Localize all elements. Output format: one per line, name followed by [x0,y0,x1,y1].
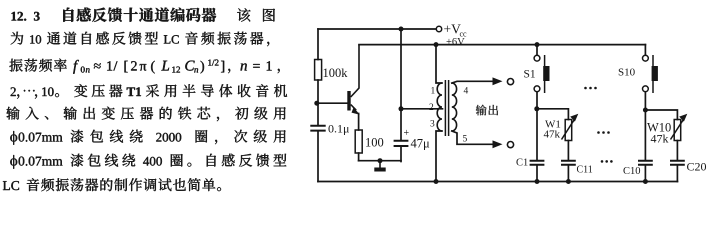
svg-text:C11: C11 [577,165,593,176]
arrow output upper [493,77,503,85]
svg-text:C1: C1 [516,158,528,169]
wire T1 pin1 vertical [436,45,442,83]
wire 0.1u to bottom rail [317,132,319,182]
wire to W10 branch [645,110,677,120]
svg-text:S10: S10 [618,67,636,79]
wire C1 to rail [536,166,538,182]
node S1 top on line B [535,42,540,47]
wire left vertical top [317,29,319,60]
wire emitter resistor to ground line [358,153,360,161]
capacitor C 0.1u [310,122,349,136]
dots between channels middle [597,131,610,134]
dots between channels lower [601,160,613,163]
node C1 rail [535,179,540,184]
wire 47u to ground line [400,147,402,162]
svg-text:+6V: +6V [446,37,465,48]
node ground junction [378,158,383,163]
text line1 [12,8,276,22]
wire W10 to C20 [676,141,678,161]
capacitor C11 [561,161,593,176]
resistor R2 100 [355,130,384,153]
rheostat W1 47k [544,114,579,141]
svg-text:+: + [404,128,410,139]
wire C20 to rail [676,166,678,182]
wire supply line A [318,28,436,30]
svg-text:C20: C20 [687,160,707,174]
wire output upper [452,81,493,83]
wire collector rail line B [359,44,645,46]
wire S1 bottom to node [536,92,538,160]
capacitor C 47u electrolytic [394,128,430,151]
node base junction [314,101,319,106]
wire C11 to rail [567,166,569,182]
wire 100k to base node [317,80,319,125]
arrow output lower [493,140,503,148]
svg-text:S1: S1 [524,69,536,81]
svg-text:3: 3 [430,120,435,130]
svg-text:4: 4 [464,87,469,97]
text line3 [9,59,279,74]
svg-text:100k: 100k [323,66,349,80]
terminal output lower [507,142,513,148]
svg-text:2: 2 [429,103,434,113]
resistor R1 100k [315,60,349,81]
text line4 [11,84,288,99]
capacitor C20 [670,160,707,174]
wire T1 pin3 to bottom rail [436,131,442,182]
dots between channels upper [584,87,597,90]
node 47u top on line A [399,27,404,32]
wire ground line [359,160,401,162]
text line2 [11,32,270,47]
wire emitter [358,114,360,131]
text line8 [3,178,221,191]
wire S10 bottom to node [644,92,646,160]
transformer T1 core [445,80,448,136]
wire to W1 branch [537,109,569,120]
wire output lower [452,131,493,144]
svg-text:1: 1 [431,87,436,97]
node channel1 junction [534,106,539,111]
wire C10 to rail [644,166,646,182]
rheostat W10 47k [647,114,687,146]
switch S10 [618,55,658,93]
terminal +Vcc [436,22,467,49]
svg-text:47k: 47k [651,132,669,146]
node C11 rail [566,179,571,184]
wire bottom rail [318,181,677,183]
node channel10 junction [643,108,648,113]
node C10 rail [643,179,648,184]
text line6 [10,130,285,145]
terminal output upper [507,79,513,85]
svg-text:C10: C10 [623,166,641,177]
ground [374,161,385,170]
transformer T1 primary [437,83,442,131]
label output 输出 [476,105,498,116]
node T1 pin3 rail [434,179,439,184]
switch S1 [524,55,550,93]
svg-text:0.1μ: 0.1μ [328,122,349,136]
capacitor C1 [516,158,544,169]
node T1 pin2 junction [399,106,404,111]
node T1 pin1 on line B [434,42,439,47]
svg-text:+V: +V [444,22,462,37]
transformer T1 secondary [452,83,457,131]
wire W1 to C11 [567,141,569,161]
svg-text:47μ: 47μ [411,137,431,151]
svg-text:100: 100 [365,136,384,150]
wire S1 top [536,45,538,56]
transistor Q1 [347,45,360,115]
svg-text:47k: 47k [544,129,561,141]
text line7 [10,154,286,169]
text line5 [6,107,285,122]
wire 47u vertical from line A [400,29,402,140]
wire pin2 horizontal [401,108,443,110]
wire base [317,102,348,104]
svg-text:5: 5 [463,135,468,145]
wire S10 top [644,45,646,56]
capacitor C10 [623,161,653,177]
